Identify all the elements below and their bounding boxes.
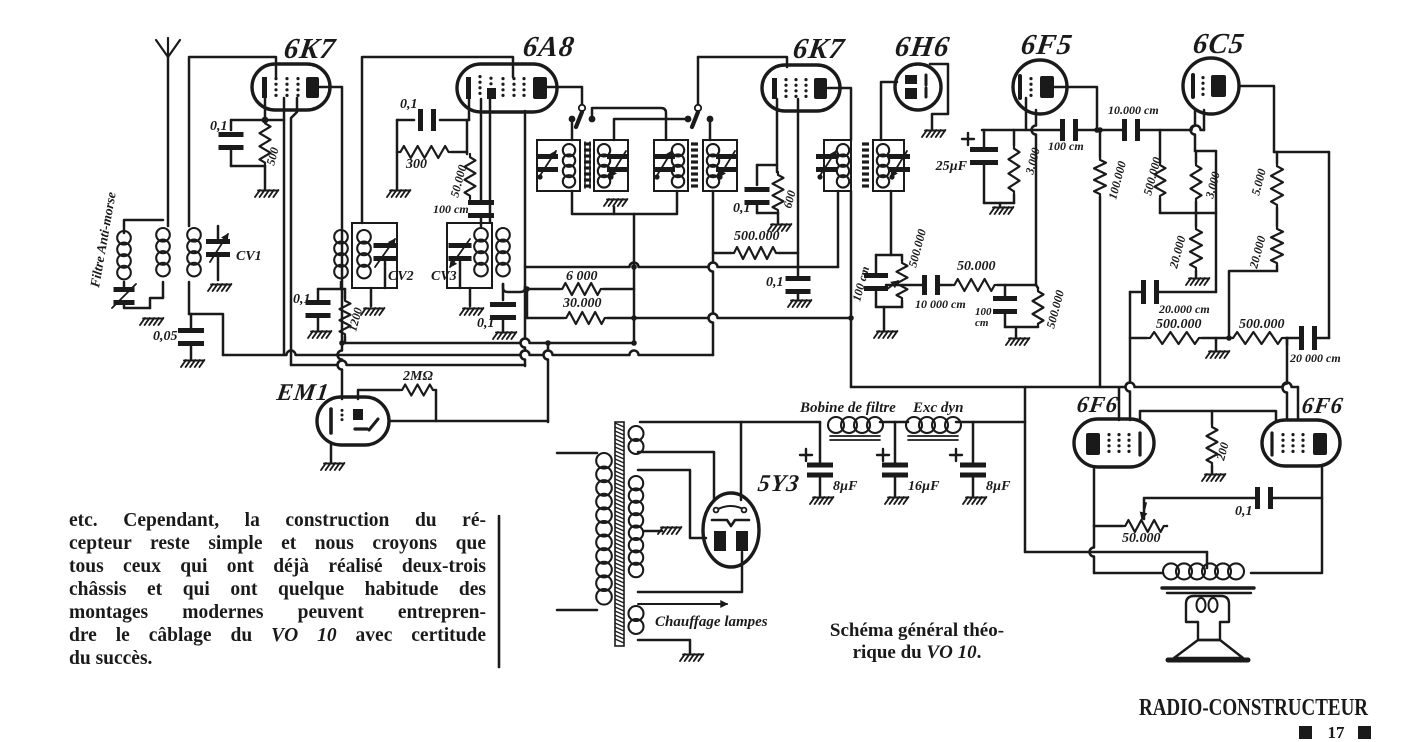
svg-text:0,1: 0,1 — [766, 275, 784, 290]
tube 6K7 no1 — [252, 64, 330, 110]
bus B y365 — [291, 361, 525, 366]
ground 8uF no2 — [963, 497, 968, 504]
variable capacitor CV1 — [217, 226, 220, 240]
wire pot bottom — [901, 301, 904, 307]
wire cathode 6K7 no1 — [264, 98, 267, 120]
svg-text:CV2: CV2 — [388, 269, 414, 284]
tube 6F6 no2 — [1262, 420, 1340, 466]
bus y343 — [341, 339, 634, 344]
IF1 coil right — [598, 144, 610, 156]
resistor 20.000 right — [1271, 226, 1283, 266]
tube 6C5 — [1183, 58, 1239, 114]
coil L4 osc primary — [334, 230, 348, 244]
capacitor 8uF no2 — [950, 449, 962, 461]
wire IF2 right bottom to bus — [709, 191, 714, 355]
switch S1 — [547, 87, 582, 105]
svg-text:6F6: 6F6 — [1075, 391, 1120, 417]
wire S2 dot to IF2 right — [709, 122, 712, 140]
mains lead top — [557, 452, 597, 455]
ground 300 — [396, 152, 399, 190]
wire anode 6F5 — [1054, 87, 1097, 130]
svg-text:0,1: 0,1 — [210, 119, 228, 134]
svg-text:6K7: 6K7 — [791, 33, 847, 65]
heater top lead arrow — [638, 603, 727, 605]
svg-text:8µF: 8µF — [833, 479, 858, 494]
wire cathode 6K7 no2 — [776, 99, 779, 172]
wire EM1 target to bus — [544, 343, 549, 422]
wire screen 6F6 no1 — [1118, 388, 1121, 420]
IF1 box left — [537, 140, 580, 191]
svg-text:Exc dyn: Exc dyn — [912, 400, 963, 416]
trimmer capacitor filter — [123, 282, 126, 288]
bus AVC y267 — [525, 263, 838, 268]
IF2 core — [691, 144, 698, 186]
tube 5Y3 — [703, 493, 759, 567]
page number 17 — [1299, 726, 1312, 739]
wire IF1 sec top — [614, 119, 688, 140]
ground 0,05 — [181, 360, 186, 367]
IF2 trimmer cap right — [716, 154, 738, 159]
svg-text:0,1: 0,1 — [1235, 504, 1253, 519]
ground 0,1 grid2 — [788, 300, 793, 307]
ground 6F5 cathode — [990, 207, 995, 214]
ground 16uF — [885, 497, 890, 504]
svg-text:6 000: 6 000 — [566, 269, 598, 284]
paragraph rule — [498, 516, 501, 667]
wire B+ riser x851 — [850, 318, 853, 387]
svg-text:6C5: 6C5 — [1191, 28, 1247, 60]
resistor 3.000 6C5 — [1195, 151, 1198, 162]
svg-text:cm: cm — [975, 317, 989, 329]
coil L5 osc secondary — [357, 230, 371, 244]
power transformer core — [615, 422, 624, 646]
resistor 3.000 cathode 6F5 — [1013, 130, 1016, 145]
svg-text:6F5: 6F5 — [1019, 29, 1075, 61]
wire IF3 left bottom to B+ — [850, 191, 853, 318]
coil L6 osc grid — [474, 228, 488, 242]
ground IF1 — [604, 199, 609, 206]
IF3 coil left — [837, 144, 849, 156]
resistor 500.000 AF grid — [1033, 288, 1044, 327]
rect 5V bottom lead to 5Y3 — [638, 452, 714, 500]
wire grid 6F6 no1 — [1126, 292, 1131, 420]
ground 0,1 CV3 — [493, 332, 498, 339]
wire S1 dot2 link — [592, 108, 666, 119]
ground CV2 — [370, 288, 373, 306]
wire 6H6 bracket — [930, 64, 948, 130]
ground CV3 — [469, 288, 472, 306]
svg-text:16µF: 16µF — [908, 479, 940, 494]
resistor 1200 — [344, 289, 347, 298]
wire rail 6C5 plate right — [1328, 152, 1331, 338]
wire between chokes — [880, 421, 908, 424]
ground detector — [874, 331, 879, 338]
svg-text:100 cm: 100 cm — [433, 202, 469, 216]
transformer HT winding — [629, 476, 643, 490]
wire EM1 diode to riser — [389, 420, 548, 423]
tube 6K7 no2 — [762, 65, 840, 111]
wire 6A8 pin to CV3 — [489, 99, 492, 222]
transformer 5V winding — [629, 426, 644, 441]
capacitor 8uF no1 — [800, 449, 812, 461]
svg-text:6A8: 6A8 — [521, 31, 577, 63]
ground filter — [140, 318, 145, 325]
loudspeaker voice coil — [1186, 596, 1229, 640]
wire 0,1 left down — [396, 120, 399, 152]
tube 6F5 — [1013, 60, 1067, 114]
resistor 300 — [397, 146, 452, 158]
ground heater — [680, 654, 685, 661]
wire screen 6K7 no2 — [797, 99, 800, 277]
ground 8uF no1 — [810, 497, 815, 504]
choke Exc dyn — [906, 417, 922, 433]
svg-text:10 000 cm: 10 000 cm — [915, 297, 966, 311]
potentiometer 500.000 — [897, 260, 908, 301]
svg-text:Chauffage lampes: Chauffage lampes — [655, 614, 768, 630]
wire filter box — [124, 220, 163, 233]
wire AF bottom to ground — [1005, 326, 1038, 329]
resistor 2MΩ — [358, 390, 399, 399]
loudspeaker cone — [1174, 640, 1243, 658]
IF2 trimmer cap left — [653, 154, 675, 159]
wire anode 6F6 no1 — [1093, 467, 1096, 526]
wire grid-top 6K7 no1 — [189, 57, 276, 226]
wire tone return — [1166, 525, 1169, 528]
svg-text:50.000: 50.000 — [1122, 531, 1161, 546]
output transformer core — [1162, 586, 1254, 589]
wire 100.000 bottom to B+ — [1099, 197, 1102, 387]
box CV2 — [352, 223, 397, 288]
grid bus y411 — [1140, 411, 1276, 420]
resistor 5.000 — [1271, 163, 1283, 208]
svg-text:500.000: 500.000 — [734, 229, 780, 244]
capacitor 16uF — [877, 449, 889, 461]
svg-text:25µF: 25µF — [935, 159, 968, 174]
wire anode 6C5 — [1239, 86, 1274, 152]
IF3 box right — [873, 140, 904, 191]
wire vertical x634 — [633, 214, 636, 343]
IF1 trimmer cap right — [607, 154, 629, 159]
svg-text:EM1: EM1 — [274, 380, 331, 406]
coil L7 osc grid 2 — [496, 228, 510, 242]
HT centre tap ground — [644, 530, 662, 533]
variable capacitor CV3 — [449, 243, 472, 248]
IF1 coil left — [563, 144, 575, 156]
svg-text:20 000 cm: 20 000 cm — [1289, 351, 1341, 365]
potentiometer 50.000 tone — [1094, 525, 1122, 528]
ground 500 — [255, 190, 260, 197]
resistor 200 — [1211, 411, 1214, 424]
wire 6F5 cathode — [1025, 98, 1028, 130]
wire screen rail x291 — [291, 98, 297, 365]
variable capacitor CV2 — [374, 243, 397, 248]
svg-text:8µF: 8µF — [986, 479, 1011, 494]
wire B+ to output transformer centre tap — [1025, 551, 1207, 554]
wire 6C5 grid — [1203, 110, 1206, 130]
wire rail 6A8 pin5 x525 — [521, 111, 526, 366]
mains lead bottom — [557, 609, 597, 612]
ground 20.000 — [1186, 278, 1191, 285]
rect winding 5V top lead — [640, 421, 820, 424]
wire IF3 right bottom to pot — [891, 191, 902, 260]
IF1 trimmer cap left — [536, 154, 558, 159]
IF1 box right — [594, 140, 628, 191]
resistor 500 — [260, 120, 271, 166]
heater bottom lead — [638, 640, 690, 653]
ground CV1 — [208, 284, 213, 291]
wire rail x283 from 6K7 pin — [283, 98, 286, 355]
wire anode no1 down — [1090, 526, 1095, 573]
wire osc grid top — [362, 57, 513, 223]
coil L3 antenna secondary — [187, 228, 201, 242]
svg-text:CV3: CV3 — [431, 269, 457, 284]
wire secondary bottom to bus A — [189, 314, 223, 355]
box CV3 — [447, 223, 492, 288]
resistor 50.000 — [452, 151, 467, 154]
wire 20.000 right bottom — [1229, 271, 1277, 338]
wire 500 to ground — [264, 166, 267, 190]
wire grid 6F6 no2 — [1286, 338, 1289, 345]
svg-text:Bobine de filtre: Bobine de filtre — [799, 400, 896, 416]
svg-text:50.000: 50.000 — [957, 259, 996, 274]
wire osc coil bottom to rail — [503, 284, 525, 292]
wire anode 6K7 no1 to rail x342 — [319, 87, 342, 343]
wire 6C5 cathode — [1191, 110, 1195, 151]
wire bottoms 6C5 bias — [1160, 212, 1216, 215]
IF2 coil right — [707, 144, 719, 156]
svg-text:CV1: CV1 — [236, 249, 262, 264]
IF3 core — [862, 144, 869, 186]
IF3 box left — [824, 140, 851, 191]
svg-text:300: 300 — [405, 157, 427, 172]
tube EM1 — [317, 397, 389, 445]
svg-text:0,05: 0,05 — [153, 329, 178, 344]
ground 6H6 — [922, 130, 927, 137]
svg-text:6K7: 6K7 — [282, 33, 338, 65]
wire Exc dyn to B+ rail — [956, 421, 1025, 424]
svg-text:20.000 cm: 20.000 cm — [1158, 302, 1210, 316]
svg-text:30.000: 30.000 — [562, 296, 602, 311]
ground EM1 — [321, 463, 326, 470]
transformer primary coil — [596, 453, 612, 469]
wire 5Y3 cathode to filter — [740, 422, 743, 500]
switch S2 — [697, 57, 700, 105]
coupling wire y130 — [1076, 129, 1124, 132]
tube 6F6 no1 — [1074, 419, 1154, 467]
svg-text:10.000 cm: 10.000 cm — [1108, 103, 1159, 117]
wire EM1 grid — [338, 343, 343, 399]
bus 30.000 to B+ — [608, 314, 851, 319]
ground 200 — [1211, 466, 1214, 474]
tube 6H6 — [895, 64, 941, 110]
wire 6K7 no2 grid top — [698, 57, 787, 67]
ground 600 — [777, 213, 780, 224]
bus A y355 — [223, 351, 713, 355]
IF3 trimmer cap right — [888, 154, 910, 159]
wire cathode node — [231, 119, 284, 122]
svg-text:500.000: 500.000 — [1156, 317, 1202, 332]
coil L1 filter primary — [117, 231, 131, 245]
wire primary right to anode 6F6 no2 — [1251, 467, 1322, 573]
ground AF — [1006, 338, 1011, 345]
IF3 trimmer cap left — [816, 154, 838, 159]
HT top lead to 5Y3 anode — [638, 470, 706, 538]
choke Bobine de filtre — [828, 417, 844, 433]
transformer heater winding — [629, 606, 644, 621]
wire EM1 cathode — [330, 444, 333, 463]
wire vertical x527 — [526, 289, 529, 318]
wire anode 6K7 no2 to IF3 — [828, 88, 851, 140]
wire antenna coil bottoms — [150, 282, 163, 308]
svg-text:6F6: 6F6 — [1300, 392, 1345, 418]
IF1 core — [584, 142, 586, 188]
antenna — [156, 38, 180, 57]
tube 6A8 — [457, 64, 557, 112]
wire S1 dot1 to IF1 left — [571, 122, 574, 140]
resistor 100.000 — [1094, 157, 1106, 197]
svg-text:5Y3: 5Y3 — [756, 471, 801, 497]
HT bottom lead — [638, 552, 742, 592]
resistor 20.000 — [1195, 213, 1198, 226]
output transformer primary — [1163, 563, 1179, 579]
bus B+ y387 — [851, 383, 1298, 388]
wire 6F5 grid — [1032, 110, 1037, 285]
ground 0,1 osc — [308, 331, 313, 338]
wire IF1 bottoms — [572, 191, 677, 214]
IF2 box right — [703, 140, 737, 191]
wire filter bottom to ground — [124, 302, 150, 308]
IF3 coil right — [877, 144, 889, 156]
svg-text:2MΩ: 2MΩ — [402, 369, 433, 384]
wire B+ riser x1025 — [1024, 387, 1027, 422]
coil L2 antenna primary — [156, 228, 170, 242]
svg-text:6H6: 6H6 — [893, 31, 952, 63]
svg-text:500.000: 500.000 — [1239, 317, 1285, 332]
svg-text:100 cm: 100 cm — [1048, 139, 1084, 153]
resistor 500.000 6C5 grid — [1159, 130, 1162, 162]
ground PP divider — [1215, 338, 1218, 351]
svg-text:0,1: 0,1 — [400, 97, 418, 112]
wire 25uF 3.000 bottoms — [984, 202, 1014, 205]
wire IF3 sec top to 6H6 — [881, 82, 897, 140]
IF2 box left — [654, 140, 688, 191]
resistor 600 — [773, 172, 784, 213]
IF2 coil left — [672, 144, 684, 156]
